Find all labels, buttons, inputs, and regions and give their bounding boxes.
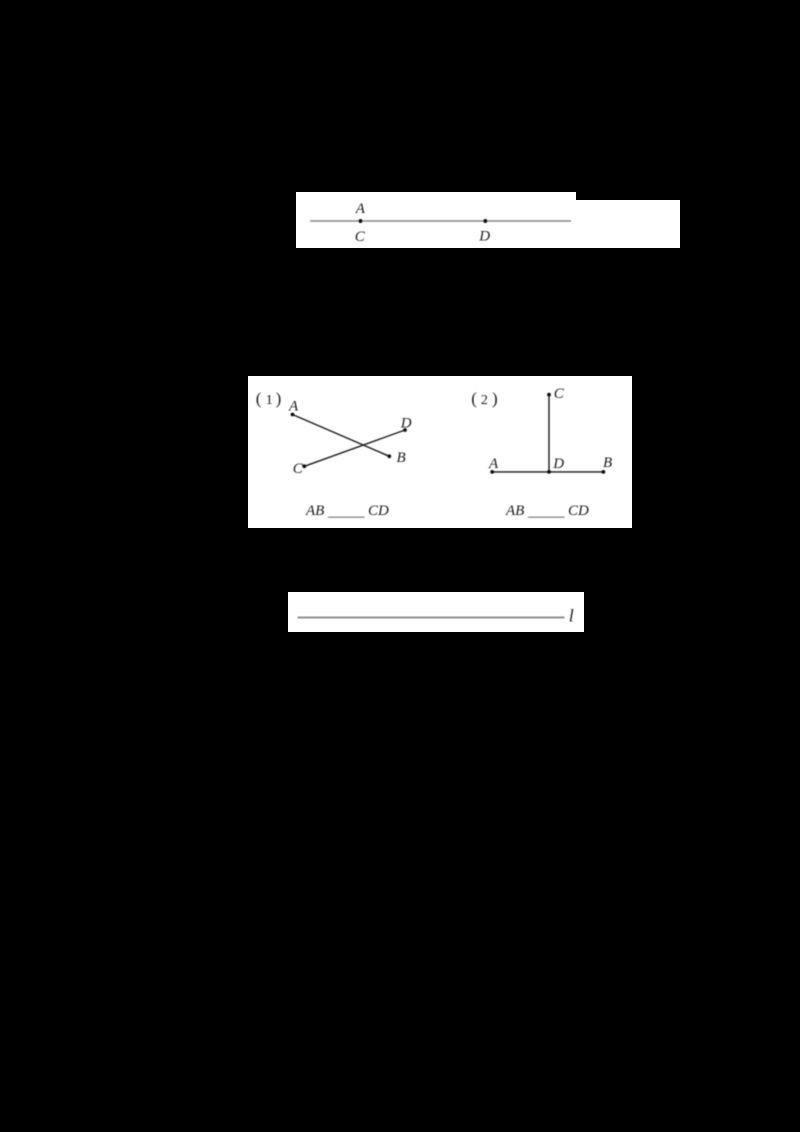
svg-text:C: C (293, 461, 304, 477)
svg-text:D: D (552, 456, 564, 472)
svg-text:AB: AB (505, 503, 524, 519)
svg-text:): ) (492, 389, 498, 408)
svg-text:C: C (355, 229, 366, 245)
svg-text:B: B (397, 450, 406, 466)
svg-text:(: ( (471, 389, 477, 408)
svg-text:CD: CD (368, 503, 389, 519)
svg-text:C: C (554, 386, 565, 402)
svg-text:l: l (569, 605, 574, 625)
svg-text:2: 2 (481, 393, 488, 408)
svg-text:CD: CD (568, 503, 589, 519)
svg-text:(: ( (256, 389, 262, 408)
svg-text:A: A (355, 201, 366, 217)
svg-text:A: A (288, 398, 299, 414)
svg-text:D: D (478, 229, 490, 245)
svg-text:): ) (276, 389, 282, 408)
svg-text:1: 1 (266, 393, 273, 408)
svg-text:D: D (400, 415, 412, 431)
svg-text:AB: AB (305, 503, 324, 519)
svg-text:A: A (488, 456, 499, 472)
svg-text:B: B (603, 455, 612, 471)
